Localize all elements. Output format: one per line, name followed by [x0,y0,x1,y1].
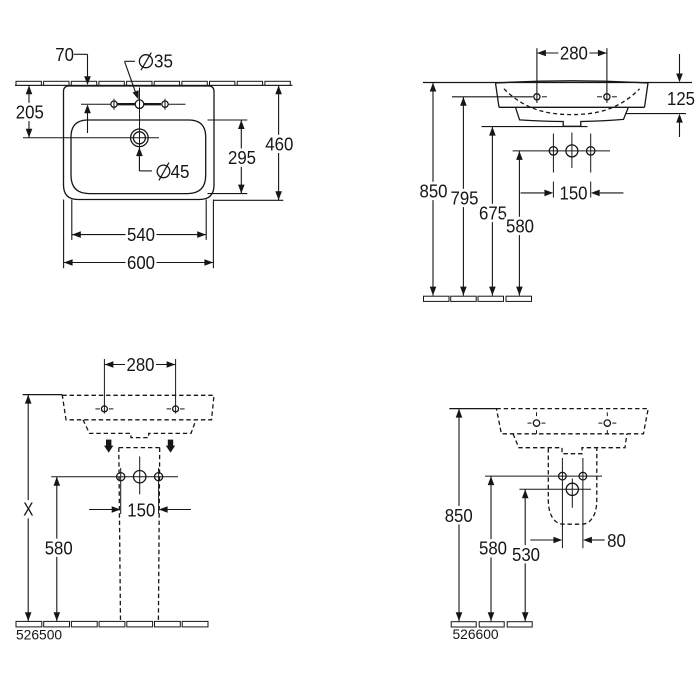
view 1: drain inner circle (d45) [133,132,145,144]
view 2: dimension 580 [505,151,536,296]
view 3: mounting hole left [101,406,107,412]
view 1: wall line (plan view) [15,84,293,86]
view 2: mounting hole ticks [542,96,617,98]
view 3: bolt hole left [117,473,125,481]
view 4: bolt hole left [559,472,567,480]
view 1: inner basin outline (540 wide) [71,120,206,194]
svg-text:460: 460 [265,133,293,154]
svg-text:150: 150 [127,499,155,520]
view 4: big fixing hole [566,483,578,495]
svg-text:205: 205 [16,102,44,123]
view 3: bolt hole verticals [121,456,159,514]
svg-text:850: 850 [420,181,448,202]
svg-text:850: 850 [445,505,473,526]
view 1: wall hatch boxes [16,81,290,85]
view 3: basin outline dashed [62,395,214,420]
view 2: basin apron with drain tab [516,107,629,126]
svg-text:X: X [23,499,33,520]
view 2: wall/top reference line [423,82,692,84]
view 2: bolt hole right [587,147,595,155]
svg-text:580: 580 [479,538,507,559]
view 4: wall reference segment (850) [449,408,497,410]
view 1: faucet hole right [162,101,168,107]
svg-text:600: 600 [127,252,155,273]
view 2: dimension 125 bottom arrow [676,114,683,137]
view 3: dimension 280 [104,354,175,375]
view 3: floor hatch boxes [16,621,208,627]
view 3: article number 526500 [16,627,62,642]
view 4: pedestal outline dashed (U shape) [548,448,597,524]
view 4: basin apron dashed [513,434,627,454]
view 1: drain outer circle [131,129,149,147]
view 1: faucet hole tick right [164,99,166,110]
view 2: dimension 795 [449,97,480,296]
view 1: dimension 205 [14,85,45,138]
svg-text:540: 540 [127,224,155,245]
svg-text:280: 280 [560,43,588,64]
svg-text:526600: 526600 [453,627,499,642]
view 2: hidden bowl curve (dashed) [504,89,640,115]
view 2: mounting hole left [534,94,540,100]
svg-text:35: 35 [154,50,173,71]
view 4: dimension 530 [511,489,542,621]
view 2: extension line from left hole (795) [452,96,533,98]
view 4: mounting hole ticks [528,412,617,434]
view 3: mounting direction bold arrow right [166,440,175,453]
view 3: pedestal outline dashed [119,448,160,622]
view 4: bolt hole extension verticals (80) [562,458,583,548]
view 3: basin apron dashed [83,420,196,438]
svg-text:70: 70 [55,44,74,65]
view 4: mounting hole left [533,420,539,426]
view 3: mounting direction bold arrow left [104,440,113,453]
view 2: bolt hole left [549,147,557,155]
view 1: label d35 [139,50,173,71]
view 1: basin outer outline (600x460) [64,86,215,200]
view 3: bolt hole right [155,473,163,481]
view 4: basin outline dashed [496,409,648,434]
view 1: faucet hole left [111,101,117,107]
view 1: dimension 600 extension lines [64,200,214,269]
view 1: dimension 295 extension lines [208,120,248,194]
view 4: bolt hole right [579,472,587,480]
view 2: underside reference line (125) [626,113,686,115]
view 1: dimension 540 [72,224,206,245]
view 1: label d45 [157,161,189,182]
view 1: drain horizontal centerline [23,137,159,139]
view 1: dimension 460 [264,85,295,200]
svg-text:580: 580 [506,216,534,237]
view 2: bolt hole center [566,145,578,157]
view 1: dimension 540 extension lines [72,200,206,240]
view 2: dimension 675 [478,127,509,296]
view 3: dimension X [21,395,34,622]
view 2: dimension 125 top arrow [676,54,683,82]
view 2: dimension 150 [521,183,624,204]
view 2: basin top edge arc [496,81,649,83]
svg-text:675: 675 [479,203,507,224]
view 2: floor hatch boxes [424,296,532,301]
view 4: dimension 80 [530,530,626,551]
view 4: mounting hole right [604,420,610,426]
svg-text:795: 795 [451,188,479,209]
view 2: basin body sides and bottom [496,83,649,107]
view 2: dimension 850 [418,83,449,296]
svg-text:125: 125 [667,88,695,109]
svg-text:80: 80 [607,530,626,551]
view 1: faucet centerline thick segments [118,103,161,105]
view 2: mounting hole right [604,94,610,100]
view 3: bolt group centerline [51,476,178,478]
view 1: dimension 295 [227,120,258,194]
svg-text:526500: 526500 [16,627,62,642]
view 3: bolt hole center [134,471,146,483]
view 4: bolt holes centerline [485,475,602,477]
view 3: dimension 150 [89,499,191,520]
view 3: mounting hole ticks [95,408,184,410]
view 2: label 125 [667,88,695,109]
view 3: wall reference segment (X) [23,394,63,396]
svg-text:150: 150 [560,183,588,204]
view 2: bolt group centerline [513,150,610,152]
view 1: dimension 460 extension line [214,199,283,201]
svg-text:580: 580 [45,537,73,558]
view 3: dimension 280 extension lines [104,359,175,414]
view 1: faucet centerline thin segments [81,103,186,105]
svg-text:530: 530 [512,544,540,565]
view 4: dimension 850 [443,409,474,622]
view 1: faucet hole center (d35) [135,100,144,109]
view 4: floor hatch boxes [451,622,532,627]
view 4: dimension 580 [478,476,509,621]
view 1: dimension 600 [64,252,214,273]
svg-text:295: 295 [228,147,256,168]
view 4: big fixing hole crosshair [519,479,591,508]
view 1: leader line for d35 [125,61,139,99]
view 2: dimension 280 [537,43,607,64]
svg-text:280: 280 [127,354,155,375]
view 1: leader line for d45 [136,147,152,171]
view 2: bolt hole verticals [553,133,590,198]
view 1: faucet hole tick left [113,99,115,110]
view 1: dimension 70 label and leader [55,44,91,133]
view 2: mounting hole extension lines (280) [537,48,607,103]
svg-text:45: 45 [171,161,190,182]
view 1: vertical centerline through faucet and drain [139,88,141,171]
view 4: article number 526600 [453,627,499,642]
view 3: dimension 580 [43,477,74,622]
view 2: drain tab underside reference line (675) [482,126,588,128]
view 3: mounting hole right [173,406,179,412]
